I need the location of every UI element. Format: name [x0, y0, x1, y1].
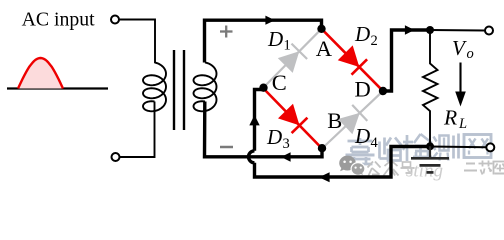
input waveform axis [7, 87, 108, 89]
secondary winding [194, 63, 217, 112]
svg-text:4: 4 [371, 135, 379, 151]
primary winding [143, 63, 166, 112]
input half-sine pulse [18, 58, 63, 89]
node D [379, 87, 387, 95]
svg-text:AC input: AC input [22, 9, 96, 31]
wire primary bottom [120, 102, 155, 158]
wire secondary top to node A [205, 20, 322, 62]
svg-text:C: C [272, 70, 287, 95]
svg-text:A: A [316, 36, 333, 61]
diode D3 red C to B [263, 88, 322, 149]
wire bottom node to terminal [430, 146, 487, 149]
current arrow up on C wire [249, 115, 259, 125]
svg-text:D: D [354, 124, 370, 148]
polarity + [220, 26, 233, 38]
svg-text:D: D [267, 27, 283, 51]
watermark big blue text (decorative) [346, 134, 492, 168]
node B [318, 144, 326, 152]
watermark small gray text (decorative) [368, 161, 504, 176]
svg-text:D: D [354, 22, 370, 46]
transformer core [173, 50, 175, 130]
wire secondary bottom to node B [205, 102, 323, 157]
current arrow left on B wire [281, 152, 291, 161]
svg-text:D: D [266, 125, 282, 149]
resistor RL [423, 30, 438, 147]
current arrow right on top wire [265, 16, 275, 25]
node output top [426, 26, 434, 34]
svg-text:R: R [443, 106, 457, 130]
node C [259, 84, 267, 92]
ground symbol [411, 146, 449, 172]
svg-text:1: 1 [284, 38, 291, 54]
diode D4 grey B to D [322, 91, 383, 149]
wire primary top [119, 20, 155, 64]
diode D2 red A to D [322, 29, 384, 91]
wire output node to terminal [430, 29, 485, 32]
svg-text:V: V [452, 36, 467, 60]
node output bottom [426, 142, 434, 150]
wire hop to node C [255, 88, 264, 151]
svg-text:L: L [458, 116, 467, 132]
diode D1 grey C to A [263, 29, 322, 88]
svg-text:2: 2 [371, 33, 378, 49]
wire hop over B wire [249, 151, 255, 163]
current arrow left on bottom wire [319, 172, 330, 182]
svg-text:sting: sting [406, 161, 443, 182]
terminal top-right [485, 27, 493, 35]
terminal bottom-left [112, 153, 120, 161]
Vo current arrow [459, 63, 461, 94]
node A [317, 25, 325, 33]
svg-text:3: 3 [283, 136, 290, 152]
current arrow right on D wire [405, 25, 415, 34]
return wire bottom [255, 147, 431, 178]
svg-text:D: D [355, 77, 371, 102]
terminal bottom-right [486, 143, 494, 151]
wire node D to output node [383, 30, 430, 91]
svg-text:o: o [467, 46, 474, 62]
watermark wechat icon (decorative) [339, 156, 365, 176]
svg-text:B: B [327, 108, 342, 133]
polarity - [220, 146, 233, 149]
terminal top-left [111, 16, 119, 24]
